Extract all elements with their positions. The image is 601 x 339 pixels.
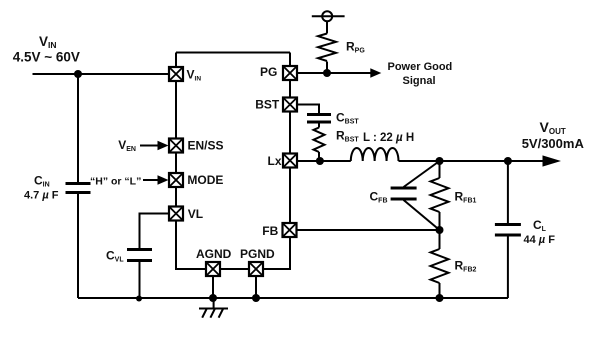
svg-text:RFB2: RFB2 [455, 259, 477, 274]
node FB junction [436, 226, 444, 234]
svg-text:CL: CL [533, 218, 547, 233]
capacitor CIN [66, 184, 91, 193]
svg-text:RPG: RPG [346, 40, 365, 55]
svg-text:VEN: VEN [118, 138, 136, 153]
svg-text:AGND: AGND [196, 247, 232, 261]
pin MODE [169, 173, 183, 187]
wire CFB top slant [404, 161, 440, 187]
capacitor CVL [127, 250, 152, 261]
svg-text:FB: FB [262, 224, 278, 238]
wire CVL to ground rail [139, 262, 141, 298]
wire VIN input line [33, 73, 170, 75]
svg-text:PG: PG [260, 65, 277, 79]
inductor L 22uH [351, 148, 399, 161]
node RBST junction [316, 157, 324, 165]
svg-text:CFB: CFB [370, 190, 388, 205]
wire ground rail [78, 297, 508, 299]
wire IC bottom segment AGND-PGND [220, 268, 249, 270]
svg-text:BST: BST [255, 98, 280, 112]
svg-text:CBST: CBST [336, 111, 359, 126]
capacitor CFB [391, 188, 417, 199]
svg-text:VOUT: VOUT [540, 119, 566, 136]
resistor RBST [314, 128, 325, 153]
capacitor CL [495, 225, 521, 236]
wire RBST to Lx line [318, 152, 320, 161]
svg-text:5V/300mA: 5V/300mA [522, 136, 585, 151]
wire IC right column [289, 53, 291, 224]
svg-text:CIN: CIN [34, 174, 50, 189]
svg-text:L : 22 µ H: L : 22 µ H [363, 132, 414, 144]
svg-text:Lx: Lx [268, 154, 282, 168]
wire BST to CBST [297, 105, 319, 114]
wire RFB2 top stub [439, 230, 441, 249]
arrow VOUT [543, 155, 562, 166]
wire left rail lower [77, 194, 79, 298]
wire CL bottom stub [507, 237, 509, 299]
wire RFB1 top stub [439, 161, 441, 178]
pin AGND [206, 262, 220, 276]
node VIN junction [74, 70, 82, 78]
pin BST [283, 98, 297, 112]
svg-text:4.7 µ F: 4.7 µ F [24, 190, 59, 202]
node CVL ground junction [136, 296, 142, 302]
pin EN/SS [169, 139, 183, 153]
pin PG [283, 66, 297, 80]
svg-text:Power Good: Power Good [388, 61, 453, 73]
wire left rail upper [77, 74, 79, 182]
resistor RFB2 [431, 249, 449, 283]
svg-text:RBST: RBST [336, 129, 359, 144]
wire VEN arrow [140, 145, 159, 147]
svg-text:VIN: VIN [39, 34, 57, 50]
pin PGND [249, 262, 263, 276]
node CL junction [504, 157, 512, 165]
pin Lx [283, 154, 297, 168]
svg-text:RFB1: RFB1 [455, 190, 477, 205]
wire RPG top stub [326, 21, 328, 33]
svg-text:VL: VL [188, 207, 203, 221]
resistor RFB1 [431, 178, 449, 212]
node PGND junction [252, 294, 260, 302]
node RFB2 ground junction [436, 294, 444, 302]
svg-text:4.5V ~ 60V: 4.5V ~ 60V [13, 50, 80, 65]
wire RPG bottom stub [326, 62, 328, 74]
wire PG output line [297, 72, 371, 74]
ground symbol [199, 298, 228, 318]
op-amp U1 IC outline top edge [176, 52, 290, 54]
wire PGND stub [255, 276, 257, 298]
wire Lx to inductor [297, 160, 351, 162]
svg-text:PGND: PGND [240, 247, 275, 261]
wire FB line [297, 229, 440, 231]
node output junction [436, 157, 444, 165]
wire RFB2 bottom stub [439, 283, 441, 298]
wire CBST to RBST [318, 124, 320, 128]
wire IC bottom right corner [263, 237, 290, 269]
wire MODE arrow [143, 179, 159, 181]
svg-text:CVL: CVL [106, 249, 124, 264]
svg-text:Signal: Signal [403, 75, 436, 87]
node AGND junction [209, 294, 217, 302]
pin VIN [169, 67, 183, 81]
svg-text:“H” or “L”: “H” or “L” [90, 176, 141, 188]
resistor RPG [318, 34, 336, 62]
wire IC left column [176, 53, 206, 270]
pin FB [283, 223, 297, 237]
terminal circle [312, 15, 345, 17]
svg-text:EN/SS: EN/SS [188, 138, 224, 152]
svg-text:VIN: VIN [187, 68, 202, 83]
node PG junction [323, 69, 331, 77]
wire CFB bottom slant [404, 200, 440, 230]
svg-text:MODE: MODE [187, 173, 223, 187]
wire AGND stub [212, 276, 214, 298]
pin VL [169, 207, 183, 221]
capacitor CBST [307, 115, 331, 123]
wire CL top stub [507, 161, 509, 223]
wire RFB1 bottom stub [439, 212, 441, 230]
wire output line [399, 160, 546, 162]
svg-text:44 µ F: 44 µ F [524, 234, 556, 246]
wire VL to CVL [140, 214, 170, 249]
